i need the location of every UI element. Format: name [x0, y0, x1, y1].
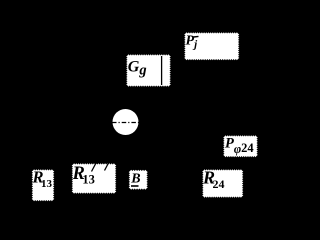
block B: [129, 170, 148, 190]
tick marks above block R'13: [92, 162, 110, 172]
node circle with dash-dot axis: [112, 109, 139, 135]
svg-text:Gg: Gg: [128, 59, 147, 79]
block R13: [32, 168, 55, 202]
svg-text:B: B: [130, 171, 140, 186]
block Pj: [184, 32, 239, 60]
block P phi24: [223, 135, 258, 157]
separator line in block Gg: [161, 56, 163, 85]
block R'13: [72, 163, 117, 194]
block R24: [202, 168, 243, 198]
block Gg (generator box): [126, 54, 171, 87]
